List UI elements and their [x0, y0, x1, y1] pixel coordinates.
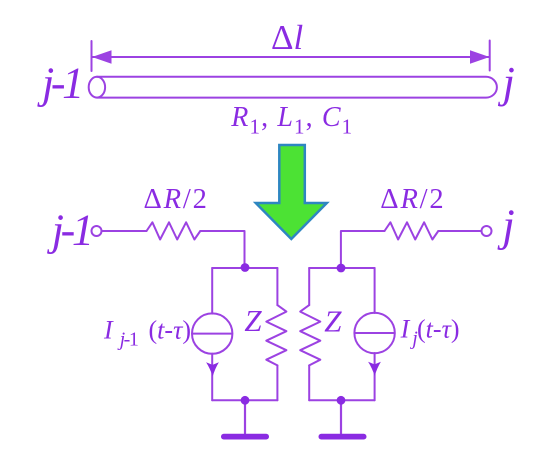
svg-text:(t-τ): (t-τ): [149, 316, 192, 345]
wire from terminal j-1 to resistor: [102, 230, 147, 232]
transmission line left end face (ellipse): [89, 77, 105, 98]
label I_j-1(t-τ): [103, 316, 191, 351]
wire: left extension tick at node j-1: [91, 41, 93, 71]
wire: right current source lower lead: [374, 353, 376, 400]
wire: left current source lower lead: [211, 354, 213, 401]
svg-text:j-1: j-1: [47, 205, 91, 254]
arrowhead left of dimension arrow: [92, 50, 112, 63]
resistor ΔR/2 left (zigzag): [147, 222, 201, 239]
terminal circle at j-1: [92, 226, 102, 236]
arrowhead of right current source: [368, 362, 381, 376]
impedance Z right (zigzag): [300, 305, 320, 365]
label I_j(t-τ): [400, 315, 460, 350]
wire: left ground stem: [244, 400, 246, 433]
wire: left impedance lower lead: [276, 365, 278, 400]
wire: dimension line for Δl: [92, 56, 490, 58]
wire from left resistor to corner and down to node: [200, 231, 244, 268]
green equivalence arrow (down): [256, 145, 327, 239]
wire from corner down to right top rail: [341, 231, 385, 268]
current source I_j-1 circle: [192, 313, 232, 353]
wire: right bottom rail: [309, 399, 374, 401]
wire: left top rail: [212, 267, 277, 269]
terminal circle at j: [482, 226, 492, 236]
wire: right impedance lower lead: [308, 365, 310, 400]
junction node dot right-top: [337, 264, 346, 273]
junction node dot left-bottom: [241, 396, 250, 405]
svg-text:Z: Z: [324, 303, 342, 338]
wire: right extension tick at node j: [489, 41, 491, 71]
svg-text:R1, L1, C1: R1, L1, C1: [230, 102, 353, 138]
junction node dot right-bottom: [337, 396, 346, 405]
impedance Z left (zigzag): [266, 305, 286, 365]
svg-text:j-1: j-1: [37, 59, 81, 108]
wire: left impedance upper lead: [276, 268, 278, 305]
svg-text:I: I: [103, 316, 114, 345]
svg-text:Δl: Δl: [271, 18, 303, 57]
wire from right resistor to terminal j: [438, 230, 481, 232]
svg-text:j-1: j-1: [117, 329, 138, 351]
svg-text:ΔR/2: ΔR/2: [144, 184, 209, 215]
ground symbol left (bar): [221, 434, 269, 440]
current source I_j circle: [354, 313, 394, 353]
wire: right ground stem: [340, 400, 342, 433]
wire: right impedance upper lead: [308, 268, 310, 305]
wire: left bottom rail: [212, 399, 277, 401]
resistor ΔR/2 right (zigzag): [385, 222, 439, 239]
svg-text:Z: Z: [244, 303, 262, 338]
transmission line segment body: [97, 77, 497, 98]
wire: left current source upper lead: [211, 268, 213, 314]
wire: right top rail: [309, 267, 374, 269]
svg-text:(t-τ): (t-τ): [417, 315, 460, 344]
svg-text:I: I: [400, 315, 411, 344]
arrowhead of left current source: [206, 362, 219, 376]
ground symbol right (bar): [319, 434, 367, 440]
svg-text:ΔR/2: ΔR/2: [380, 184, 445, 215]
wire: right current source upper lead: [374, 268, 376, 313]
junction node dot left-top: [241, 263, 250, 272]
arrowhead right of dimension arrow: [470, 50, 490, 63]
